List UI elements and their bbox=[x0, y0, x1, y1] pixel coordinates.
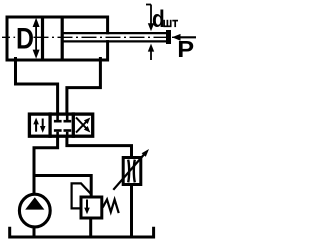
piston line 2 bbox=[61, 19, 64, 59]
rod top line bbox=[64, 32, 167, 34]
directional valve body U1 bbox=[29, 114, 92, 136]
d_sht dimension arrow lower bbox=[148, 44, 154, 60]
D diameter arrow bbox=[33, 18, 40, 59]
wire valve port P to pump bbox=[34, 137, 58, 195]
rod end cap bbox=[166, 30, 171, 44]
valve right section crossed arrows bbox=[76, 117, 90, 132]
wire relief branch bbox=[34, 176, 91, 197]
svg-text:d: d bbox=[152, 5, 165, 32]
relief valve inner arrow bbox=[84, 200, 90, 215]
force P arrow bbox=[172, 34, 196, 41]
wire valve port T to throttle bbox=[67, 137, 132, 158]
piston line 1 bbox=[41, 19, 44, 59]
valve section divider left bbox=[48, 114, 51, 136]
valve section divider right bbox=[72, 114, 75, 136]
valve left section up arrow bbox=[33, 118, 39, 132]
wire pump suction bbox=[33, 227, 36, 237]
svg-text:D: D bbox=[16, 21, 34, 55]
pump triangle bbox=[25, 197, 44, 209]
wire relief valve outlet bbox=[89, 220, 92, 237]
throttle inner arcs bbox=[128, 160, 135, 183]
relief valve spring bbox=[103, 200, 118, 213]
valve left section down arrow bbox=[40, 119, 46, 133]
throttle valve DR box bbox=[123, 158, 141, 185]
wire cap-end pipe (cylinder left to valve port A) bbox=[16, 59, 58, 115]
label sht subscript bbox=[163, 20, 178, 27]
tank line bbox=[10, 228, 154, 237]
cylinder body bbox=[7, 17, 108, 60]
relief valve pilot line bbox=[72, 183, 91, 208]
svg-text:P: P bbox=[177, 37, 194, 63]
wire throttle outlet bbox=[130, 185, 133, 237]
d_sht dimension arrow upper bbox=[146, 5, 154, 32]
rod bottom line bbox=[64, 40, 167, 42]
wire rod-end pipe (cylinder right to valve port B) bbox=[67, 59, 101, 115]
throttle adjust arrow bbox=[113, 149, 149, 190]
valve middle section blocked ports bbox=[54, 115, 71, 136]
centerline dash-dot bbox=[2, 36, 174, 38]
rod white mask over cylinder right edge bbox=[105, 34, 112, 40]
pump P1 circle bbox=[19, 194, 50, 227]
relief valve KP square bbox=[81, 197, 102, 218]
